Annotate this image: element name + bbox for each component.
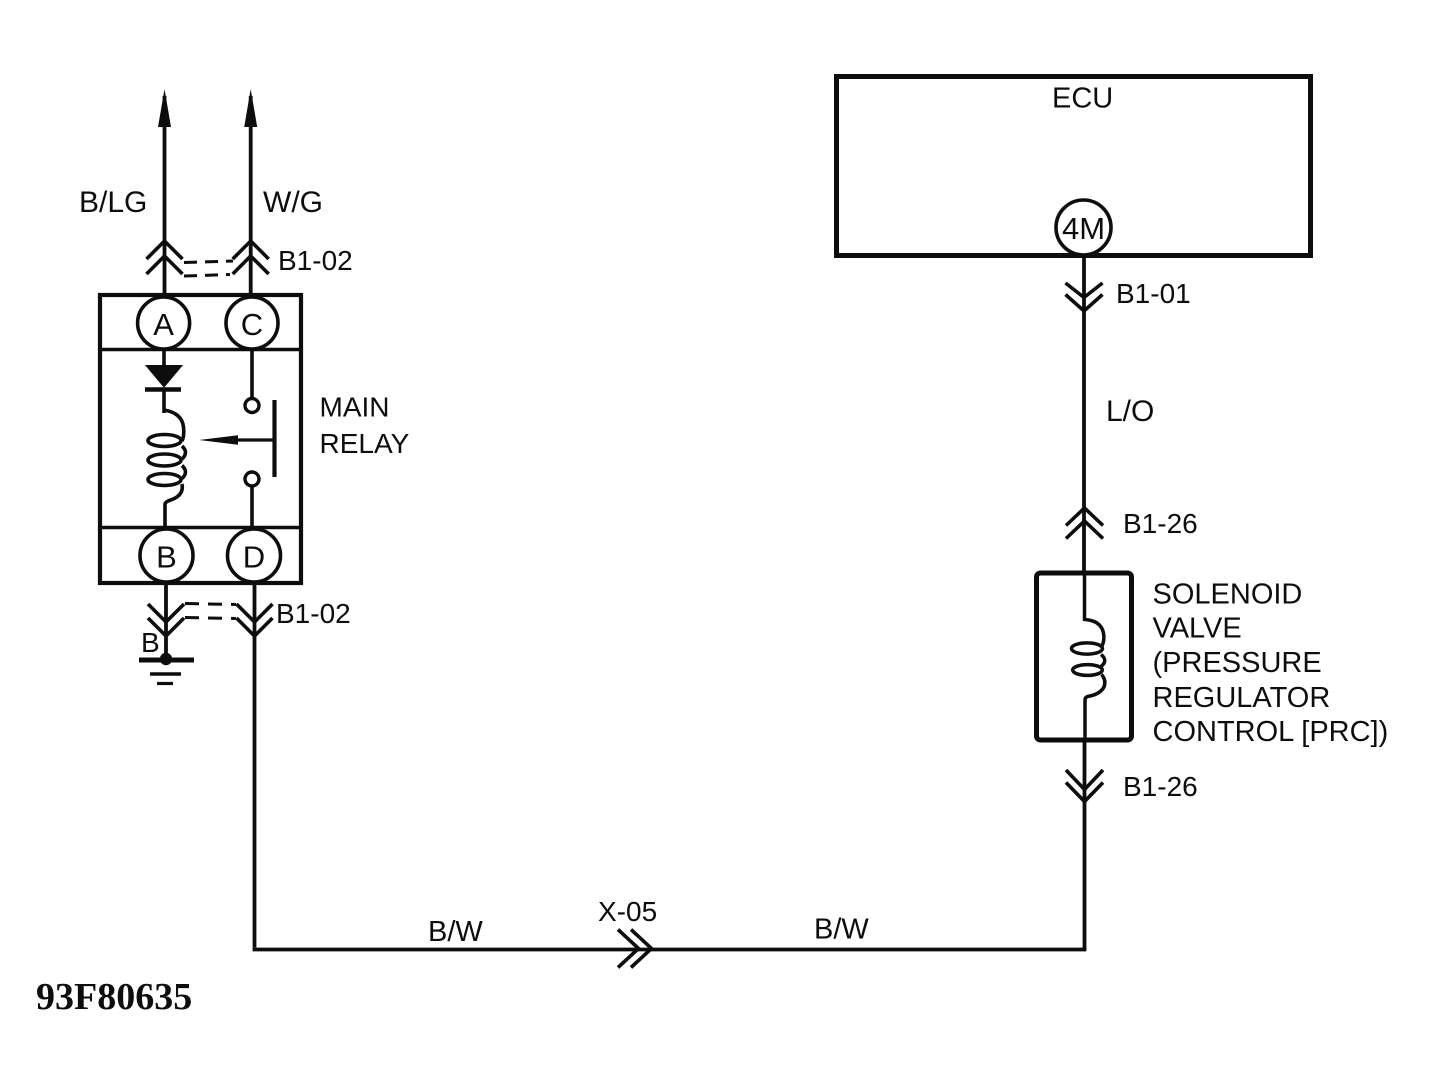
svg-text:B1-26: B1-26: [1123, 771, 1198, 802]
connector B1-02 (top, double chevrons with dashed link): [147, 241, 269, 276]
connector B1-01 (double chevron): [1066, 283, 1103, 311]
wire B to ground: [164, 582, 168, 658]
label ECU: [1052, 83, 1113, 115]
svg-text:93F80635: 93F80635: [36, 976, 192, 1018]
svg-text:REGULATOR: REGULATOR: [1153, 682, 1331, 714]
svg-text:B/W: B/W: [428, 916, 483, 948]
wire W/G (vertical, to power): [249, 96, 253, 295]
label B/LG: [79, 186, 147, 219]
wire L/O (ECU pin 4M to solenoid valve): [1082, 254, 1086, 572]
svg-text:B/LG: B/LG: [79, 186, 147, 219]
label MAIN RELAY: [320, 392, 410, 460]
label B1-02 (bottom): [276, 598, 351, 629]
label B/W (left): [428, 916, 483, 948]
connector B1-26 (lower, double chevron): [1066, 770, 1103, 802]
switch lower contact: [245, 472, 259, 486]
label B1-02 (top): [278, 245, 353, 276]
label SOLENOID VALVE (PRESSURE REGULATOR CONTROL [PRC]): [1153, 579, 1389, 749]
relay coil: [148, 410, 186, 527]
svg-text:W/G: W/G: [263, 186, 323, 219]
svg-text:B/W: B/W: [814, 914, 869, 946]
switch upper contact: [245, 399, 259, 413]
label B (ground wire color): [141, 627, 160, 658]
wire lower contact to D: [250, 486, 254, 529]
switch actuator bar: [272, 400, 276, 477]
terminal C: [226, 297, 278, 349]
svg-text:B1-02: B1-02: [278, 245, 353, 276]
svg-text:X-05: X-05: [598, 896, 657, 927]
diode (relay clamping diode): [145, 366, 182, 414]
svg-text:4M: 4M: [1062, 211, 1105, 246]
arrow up on B/LG wire: [158, 89, 171, 127]
connector X-05 (double chevron): [618, 930, 652, 968]
solenoid valve box: [1037, 573, 1132, 740]
label W/G: [263, 186, 323, 219]
svg-text:C: C: [241, 307, 263, 342]
label B1-26 (lower): [1123, 771, 1198, 802]
actuator arrow (points to coil): [199, 435, 275, 445]
label L/O: [1106, 395, 1154, 428]
svg-text:(PRESSURE: (PRESSURE: [1153, 647, 1322, 679]
svg-text:B: B: [156, 540, 177, 575]
connector B1-02 (bottom, double chevrons with dashed link): [148, 604, 273, 637]
svg-text:B1-26: B1-26: [1123, 508, 1198, 539]
terminal B: [140, 529, 193, 582]
pin 4M (ECU terminal): [1056, 200, 1111, 255]
label X-05: [598, 896, 657, 927]
svg-text:B1-01: B1-01: [1116, 278, 1191, 309]
svg-text:B1-02: B1-02: [276, 598, 351, 629]
figure number 93F80635: [36, 976, 192, 1018]
svg-text:A: A: [153, 307, 174, 342]
terminal A: [138, 297, 190, 349]
svg-text:RELAY: RELAY: [320, 428, 410, 459]
svg-text:ECU: ECU: [1052, 83, 1113, 115]
wire B/LG (vertical, to power): [163, 96, 167, 295]
svg-text:VALVE: VALVE: [1153, 613, 1242, 645]
main relay box: [100, 295, 301, 583]
svg-text:SOLENOID: SOLENOID: [1153, 579, 1303, 611]
ground: [139, 653, 194, 684]
label B/W (right): [814, 914, 869, 946]
connector B1-26 (upper, double chevron): [1066, 508, 1103, 539]
svg-text:L/O: L/O: [1106, 395, 1154, 428]
svg-text:D: D: [243, 540, 265, 575]
svg-text:MAIN: MAIN: [320, 392, 390, 423]
label B1-01: [1116, 278, 1191, 309]
wire C to upper contact: [250, 349, 254, 398]
wire B/W (D down and along bottom to X-05): [253, 582, 640, 950]
solenoid coil: [1072, 573, 1105, 740]
svg-text:CONTROL [PRC]): CONTROL [PRC]): [1153, 716, 1389, 748]
terminal D: [228, 529, 281, 582]
ECU box: [837, 77, 1311, 256]
arrow up on W/G wire: [244, 89, 257, 127]
label B1-26 (upper): [1123, 508, 1198, 539]
wire B/W (X-05 to solenoid valve): [640, 742, 1086, 950]
svg-text:B: B: [141, 627, 160, 658]
wire A to diode: [162, 349, 166, 366]
